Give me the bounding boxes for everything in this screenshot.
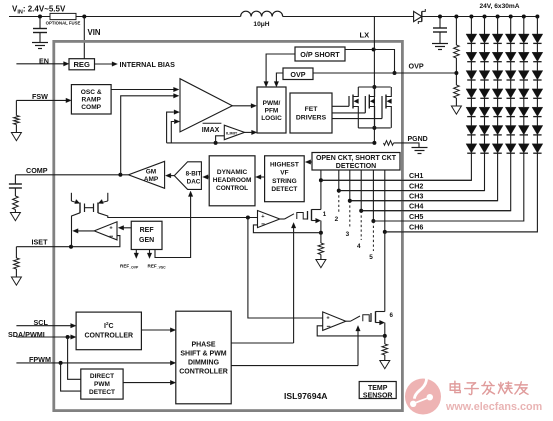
svg-text:CH6: CH6 <box>409 223 423 232</box>
svg-text:AMP: AMP <box>144 176 159 183</box>
svg-text:DYNAMIC: DYNAMIC <box>217 169 248 176</box>
svg-text:10μH: 10μH <box>253 21 269 28</box>
svg-text:DETECT: DETECT <box>271 186 297 193</box>
svg-text:24V, 6x30mA: 24V, 6x30mA <box>479 3 519 10</box>
svg-text:REF: REF <box>140 227 155 234</box>
svg-text:OPEN CKT, SHORT CKT: OPEN CKT, SHORT CKT <box>316 155 397 162</box>
svg-text:STRING: STRING <box>272 178 297 185</box>
svg-text:PFM: PFM <box>265 108 279 115</box>
svg-text:www.elecfans.com: www.elecfans.com <box>445 401 542 413</box>
svg-text:3: 3 <box>346 231 350 238</box>
svg-text:PWM: PWM <box>94 381 110 388</box>
svg-text:8-BIT: 8-BIT <box>186 170 202 177</box>
svg-text:DETECT: DETECT <box>89 389 115 396</box>
svg-text:GM: GM <box>146 168 156 175</box>
svg-text:CONTROL: CONTROL <box>216 185 248 192</box>
svg-text:SHIFT & PWM: SHIFT & PWM <box>180 350 226 357</box>
svg-text:RAMP: RAMP <box>81 96 101 103</box>
svg-text:1: 1 <box>323 211 327 218</box>
svg-text:LX: LX <box>360 31 370 40</box>
svg-text:O/P SHORT: O/P SHORT <box>300 50 340 59</box>
svg-text:CH3: CH3 <box>409 192 423 201</box>
svg-text:LOGIC: LOGIC <box>261 115 282 122</box>
svg-text:ILIMIT: ILIMIT <box>226 131 238 136</box>
svg-text:CONTROLLER: CONTROLLER <box>179 368 228 375</box>
svg-text:DIRECT: DIRECT <box>90 373 114 380</box>
svg-text:PHASE: PHASE <box>191 341 215 348</box>
svg-text:2: 2 <box>335 216 339 223</box>
svg-text:GEN: GEN <box>139 237 154 244</box>
svg-text:ISET: ISET <box>32 237 49 246</box>
svg-text:INTERNAL BIAS: INTERNAL BIAS <box>120 60 176 69</box>
svg-text:HEADROOM: HEADROOM <box>213 177 252 184</box>
svg-text:DIMMING: DIMMING <box>188 359 220 366</box>
svg-text:DAC: DAC <box>187 178 201 185</box>
svg-text:ISL97694A: ISL97694A <box>284 391 327 401</box>
svg-text:DRIVERS: DRIVERS <box>296 115 327 122</box>
svg-text:CONTROLLER: CONTROLLER <box>84 333 133 340</box>
svg-text:TEMP: TEMP <box>368 385 388 392</box>
svg-text:OVP: OVP <box>290 70 305 79</box>
svg-text:COMP: COMP <box>81 104 101 111</box>
svg-text:5: 5 <box>369 254 373 261</box>
svg-text:6: 6 <box>390 312 394 319</box>
svg-text:REG: REG <box>73 60 90 69</box>
svg-text:IMAX: IMAX <box>202 127 220 134</box>
svg-text:CH5: CH5 <box>409 212 423 221</box>
svg-text:CH1: CH1 <box>409 171 423 180</box>
svg-text:FET: FET <box>305 106 319 113</box>
svg-text:COMP: COMP <box>26 166 48 175</box>
svg-text:OSC &: OSC & <box>81 89 102 96</box>
svg-text:PWM/: PWM/ <box>263 100 281 107</box>
svg-text:CH2: CH2 <box>409 181 423 190</box>
svg-text:4: 4 <box>357 243 361 250</box>
svg-text:OVP: OVP <box>409 62 424 71</box>
svg-text:SENSOR: SENSOR <box>363 392 393 399</box>
svg-text:OPTIONAL FUSE: OPTIONAL FUSE <box>46 21 81 26</box>
svg-text:I2C: I2C <box>104 321 114 330</box>
svg-text:VIN: VIN <box>88 28 101 37</box>
svg-text:CH4: CH4 <box>409 202 423 211</box>
svg-text:PGND: PGND <box>408 136 428 143</box>
svg-text:HIGHEST: HIGHEST <box>270 161 299 168</box>
svg-text:DETECTION: DETECTION <box>336 163 376 170</box>
svg-text:VF: VF <box>280 170 288 177</box>
